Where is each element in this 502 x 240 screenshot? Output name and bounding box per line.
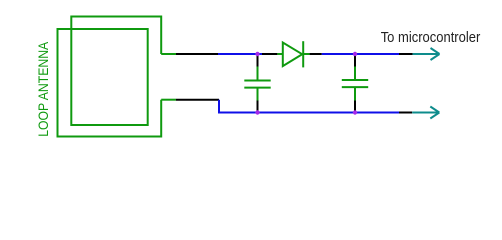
wire: bottom net, antenna step-down — [219, 100, 258, 113]
capacitor C1 pin bottom (black) — [257, 101, 259, 113]
capacitor C2 pin bottom (black) — [354, 101, 356, 113]
antenna pin 2 lead (bottom, symbol side) — [161, 99, 176, 101]
diode D1 — [277, 41, 309, 67]
wire: bottom net, node N4 to arrow pin — [355, 112, 399, 114]
capacitor C1 pin top (black) — [257, 54, 259, 67]
antenna pin 1 lead (top, symbol side) — [161, 53, 176, 55]
wire: top net, antenna to node N1 — [218, 53, 258, 55]
arrow to microcontroller (top) — [413, 48, 440, 60]
diode D1 cathode pin — [310, 53, 322, 55]
arrow pin (top, black) — [399, 53, 413, 55]
wire: N1 stub to diode anode pin — [258, 53, 263, 55]
junction node N2 — [353, 52, 357, 56]
junction node N3 — [255, 110, 259, 114]
antenna pin 2 (bottom, black pin) — [176, 99, 219, 101]
diode D1 anode pin — [262, 53, 277, 55]
capacitor C1 — [244, 67, 270, 101]
junction node N4 — [353, 110, 357, 114]
junction node N1 — [255, 52, 259, 56]
svg-text:To microcontroler: To microcontroler — [381, 30, 481, 46]
capacitor C2 — [342, 67, 368, 101]
wire: top net, node N2 to arrow pin — [355, 53, 399, 55]
svg-text:LOOP ANTENNA: LOOP ANTENNA — [35, 41, 51, 137]
antenna pin 1 (top, black pin) — [176, 53, 219, 55]
capacitor C2 pin top (black) — [354, 54, 356, 67]
loop antenna L1 coil — [58, 17, 162, 137]
wire: bottom net, node N3 to node N4 — [258, 112, 356, 114]
arrow pin (bottom, black) — [399, 112, 412, 114]
arrow to microcontroller (bottom) — [412, 107, 439, 119]
wire: top net, diode to node N2 — [322, 53, 355, 55]
